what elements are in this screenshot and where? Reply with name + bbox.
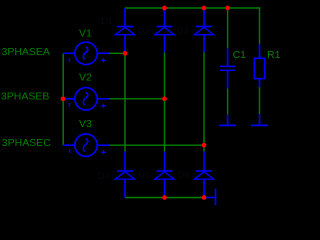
wire left neutral vertical <box>62 53 64 145</box>
wire column B lower <box>164 99 166 152</box>
svg-text:D1: D1 <box>101 16 113 26</box>
wire top rail <box>125 7 260 9</box>
junction bottom rail B <box>162 195 167 200</box>
svg-text:R1: R1 <box>267 49 281 61</box>
source V3 <box>63 134 109 156</box>
svg-text:D6: D6 <box>178 170 190 180</box>
ground bottom right <box>204 189 216 206</box>
wire column C upper <box>203 52 205 145</box>
wire column B upper <box>164 52 166 98</box>
svg-text:3PHASEC: 3PHASEC <box>2 137 51 149</box>
wire column C lower <box>203 145 205 151</box>
diode D4 <box>115 152 134 198</box>
wire V2 right <box>110 98 165 100</box>
diode D2 <box>155 8 174 52</box>
junction top rail B <box>162 6 167 11</box>
ground for R1 <box>251 114 268 125</box>
svg-text:V1: V1 <box>79 27 92 39</box>
svg-text:D5: D5 <box>138 170 150 180</box>
svg-text:D4: D4 <box>98 171 110 181</box>
junction bottom rail C <box>202 195 207 200</box>
resistor R1 <box>254 44 264 87</box>
diode D3 <box>194 8 213 52</box>
source V2 <box>63 88 109 110</box>
junction top rail C <box>202 6 207 11</box>
ground for C1 <box>219 115 236 126</box>
svg-text:C1: C1 <box>233 49 247 61</box>
svg-text:D2: D2 <box>138 26 150 36</box>
junction V2 right <box>162 96 167 101</box>
diode D5 <box>155 152 174 198</box>
wire bottom rail <box>125 197 204 199</box>
junction V3 right <box>202 143 207 148</box>
capacitor C1 <box>220 48 235 88</box>
svg-text:3PHASEA: 3PHASEA <box>2 46 50 58</box>
wire R1 column top <box>259 7 261 44</box>
wire V3 right <box>110 144 205 146</box>
svg-text:V2: V2 <box>79 71 92 83</box>
diode D6 <box>194 152 213 198</box>
wire C1 column top <box>227 8 229 48</box>
source V1 <box>63 42 109 64</box>
junction top rail C1 <box>225 6 230 11</box>
wire column A phase <box>124 53 126 151</box>
wire R1 bottom <box>259 87 261 114</box>
svg-text:D3: D3 <box>177 26 189 36</box>
svg-text:3PHASEB: 3PHASEB <box>1 91 49 103</box>
wire C1 bottom <box>227 88 229 114</box>
junction V1 right <box>123 51 128 56</box>
wire V1 right <box>110 52 126 54</box>
svg-text:V3: V3 <box>79 118 92 130</box>
junction neutral V2 <box>61 96 66 101</box>
diode D1 <box>115 8 134 52</box>
